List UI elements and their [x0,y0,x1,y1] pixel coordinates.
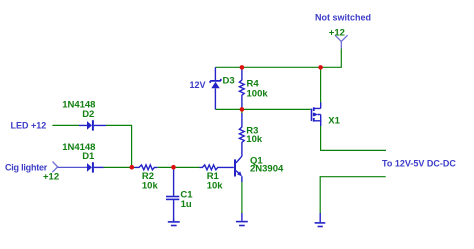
wire junction B to R1 [174,166,200,168]
zener diode D3 [210,67,221,109]
wire mosfet source to out [321,126,386,151]
label 10k R3 [246,134,263,145]
junction dot rail-R4 [240,65,245,70]
wire R3 top stub [241,109,243,113]
svg-text:D3: D3 [223,76,235,87]
svg-text:1u: 1u [181,199,192,210]
svg-text:10k: 10k [246,134,263,145]
label D1 [82,151,95,162]
wire corner to junction [131,161,133,168]
wire R2 to junction B [157,166,173,168]
wire R4 top stub [241,67,243,70]
diode D2 [79,120,106,130]
resistor R1 [200,165,234,170]
mosfet X1 [312,103,321,127]
label Not switched [315,13,371,23]
junction dot gate-R3 [240,107,245,112]
label R3 [246,126,258,137]
junction dot A diodes [130,165,135,170]
wire cig port to D1 [58,166,87,168]
label D2 [82,109,94,120]
svg-text:X1: X1 [328,115,340,126]
ground G1 under C1 [168,219,180,226]
junction dot B C1 [171,165,176,170]
resistor R3 [239,113,244,156]
wire lower out to ground [320,177,386,214]
label To 12V-5V DC-DC [382,158,456,168]
capacitor C1 [166,169,179,221]
label Q1 [250,155,263,166]
junction dot rail-mosfet [318,65,323,70]
label +12 cig [43,171,59,182]
port +12 top [335,35,348,49]
port Cig lighter [52,162,57,173]
label LED +12 [11,120,47,130]
svg-text:10k: 10k [207,181,224,192]
label 12V [190,80,206,90]
svg-text:12V: 12V [190,80,206,90]
wire mosfet drain drop [320,67,322,103]
label Cig lighter [5,163,48,173]
svg-text:D1: D1 [82,151,95,162]
ground G2 under Q1 [236,213,248,226]
svg-text:10k: 10k [142,181,159,192]
wire gate rail [215,108,310,110]
wire Q1 emitter to ground [241,182,243,214]
label 1N4148 D1 [62,142,95,153]
label R2 [142,171,154,182]
svg-text:+12: +12 [329,27,345,38]
wire LED line [52,124,79,126]
label R4 [247,79,260,90]
label 10k R1 [207,181,224,192]
resistor R4 [239,70,244,108]
label 100k [247,88,269,99]
label X1 [328,115,340,126]
label 2N3904 [250,164,284,175]
svg-text:2N3904: 2N3904 [250,164,284,175]
transistor Q1 [235,156,242,182]
svg-text:LED +12: LED +12 [11,120,47,130]
label 1u [181,199,192,210]
wire D2 to corner [106,125,132,160]
svg-text:+12: +12 [43,171,59,182]
ground G3 output [315,213,326,227]
label C1 [180,190,193,201]
svg-text:To 12V-5V DC-DC: To 12V-5V DC-DC [382,158,456,168]
svg-text:Cig lighter: Cig lighter [5,163,48,173]
label 1N4148 D2 [62,100,95,111]
diode D1 [87,162,104,172]
svg-text:D2: D2 [82,109,94,120]
label 10k R2 [142,181,159,192]
label +12 top [329,27,345,38]
wire D1 to junction A [104,166,135,168]
label R1 [207,171,220,182]
svg-text:100k: 100k [247,88,269,99]
resistor R2 [135,165,158,170]
wire +12 drop [340,49,342,68]
wire top +12 rail [215,66,342,68]
label D3 [223,76,235,87]
svg-text:Not switched: Not switched [315,13,371,23]
